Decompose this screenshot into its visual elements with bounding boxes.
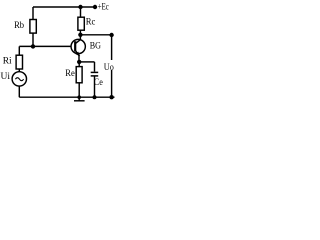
svg-text:Ce: Ce (94, 78, 103, 88)
svg-text:Rc: Rc (86, 18, 96, 28)
svg-text:Re: Re (65, 69, 75, 79)
svg-text:BG: BG (90, 42, 101, 52)
svg-text:Ui: Ui (1, 72, 11, 82)
svg-text:Uo: Uo (104, 63, 114, 73)
svg-text:Ri: Ri (3, 57, 12, 67)
svg-text:+Ec: +Ec (98, 3, 109, 13)
svg-text:Rb: Rb (14, 21, 24, 31)
